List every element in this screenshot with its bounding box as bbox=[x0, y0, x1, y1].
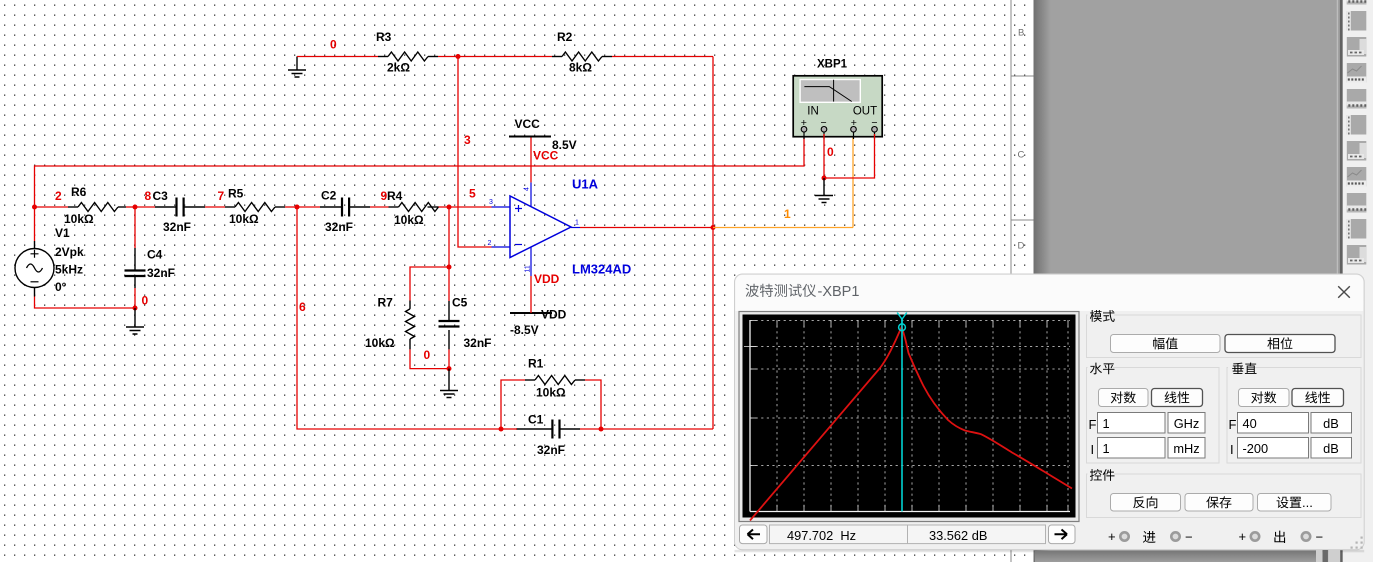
svg-text:32nF: 32nF bbox=[537, 443, 565, 457]
svg-text:-8.5V: -8.5V bbox=[510, 323, 539, 337]
bode plot edge ticks bbox=[744, 321, 1068, 512]
svg-text:V1: V1 bbox=[55, 226, 70, 240]
svg-text:OUT: OUT bbox=[853, 106, 877, 118]
unit GHz bbox=[1168, 413, 1205, 434]
svg-text:10kΩ: 10kΩ bbox=[365, 336, 395, 350]
XBP1 screen curve bbox=[804, 80, 851, 102]
op-amp pin stub + (pin 3) bbox=[492, 206, 511, 208]
button 反向 bbox=[1111, 494, 1181, 512]
bode analyzer dialog window bbox=[735, 274, 1365, 550]
ground bbox=[815, 196, 833, 203]
wire C4 to ground node bbox=[134, 288, 136, 308]
wire net1 vertical feedback bbox=[712, 57, 714, 430]
junction output/feedback bbox=[711, 225, 716, 230]
unit dB (F) bbox=[1311, 413, 1352, 434]
ground bbox=[440, 391, 458, 398]
resistor R4 leads bbox=[389, 206, 439, 208]
op-amp power stub pin 4 bbox=[530, 182, 532, 206]
group label 控件 bbox=[1090, 469, 1102, 481]
svg-text:2: 2 bbox=[488, 240, 492, 247]
capacitor C1 leads bbox=[516, 428, 580, 430]
wire VCC to pin4 bbox=[530, 138, 532, 183]
groupbox controls bbox=[1087, 474, 1362, 518]
svg-text:5kHz: 5kHz bbox=[55, 263, 83, 277]
ground (below R7/C5) bbox=[448, 369, 450, 391]
svg-text:IN: IN bbox=[807, 106, 819, 118]
svg-text:32nF: 32nF bbox=[325, 220, 353, 234]
svg-text:VCC: VCC bbox=[515, 117, 541, 131]
svg-text:C2: C2 bbox=[321, 189, 337, 203]
button 线性 (horizontal) bbox=[1152, 389, 1203, 407]
input F vertical bbox=[1238, 413, 1309, 434]
wire net1 orange horizontal bbox=[713, 227, 853, 229]
wire R4 to node 5 bbox=[439, 206, 450, 208]
wire net 3 to inverting input bbox=[458, 57, 492, 248]
svg-text:R3: R3 bbox=[376, 30, 392, 44]
svg-text:2Vpk: 2Vpk bbox=[55, 245, 84, 259]
readout right button bbox=[1049, 525, 1076, 544]
svg-text:3: 3 bbox=[464, 133, 471, 147]
groupbox vertical bbox=[1227, 368, 1361, 464]
svg-text:+: + bbox=[1239, 529, 1247, 544]
svg-text:VDD: VDD bbox=[534, 272, 560, 286]
svg-text:1: 1 bbox=[1103, 416, 1110, 431]
wire node8 down to C4 bbox=[134, 207, 136, 248]
dialog title 波特测试仪-XBP1 bbox=[746, 284, 759, 297]
svg-text:R4: R4 bbox=[387, 189, 403, 203]
svg-text:0: 0 bbox=[142, 294, 149, 308]
ground (below C4) bbox=[134, 308, 136, 327]
button 幅值 bbox=[1111, 335, 1221, 353]
wire pin11 to VDD bbox=[530, 276, 532, 313]
capacitor C2 bbox=[342, 198, 349, 217]
svg-text:C1: C1 bbox=[528, 413, 544, 427]
toolbar instrument icon 4 bbox=[1347, 63, 1367, 83]
svg-text:R6: R6 bbox=[71, 185, 87, 199]
resistor R6 bbox=[78, 203, 118, 212]
junction node 0 at C4/V1- bbox=[133, 306, 138, 311]
wire net1 top bbox=[612, 56, 713, 58]
sheet row divider B/C bbox=[1011, 75, 1034, 77]
svg-text:VCC: VCC bbox=[533, 149, 559, 163]
junction node 6 bbox=[295, 205, 300, 210]
bode plot grid bbox=[750, 320, 1070, 512]
wire up to R1 bbox=[501, 380, 525, 429]
toolbar instrument icon 9 bbox=[1347, 193, 1367, 213]
wire R6 to node 8 bbox=[126, 206, 135, 208]
resistor R5 leads bbox=[225, 206, 285, 208]
wire node6 to C1 bbox=[501, 428, 517, 430]
capacitor C2 leads bbox=[320, 206, 370, 208]
toolbar instrument icon 6 bbox=[1347, 115, 1367, 135]
svg-text:0: 0 bbox=[827, 145, 834, 159]
capacitor C3 bbox=[177, 198, 184, 217]
svg-text:...: ... bbox=[1302, 495, 1313, 510]
capacitor C4 bbox=[125, 271, 146, 277]
input I horizontal bbox=[1098, 438, 1166, 459]
unit dB (I) bbox=[1311, 438, 1352, 459]
resistor R5 bbox=[235, 203, 275, 212]
wire net1? no net3 between R3,R2 bbox=[438, 56, 552, 58]
op-amp pin stub - (pin 2) bbox=[492, 246, 511, 248]
capacitor C1 bbox=[552, 420, 559, 439]
svg-text:10kΩ: 10kΩ bbox=[536, 386, 566, 400]
resistor R7 leads bbox=[409, 301, 411, 350]
svg-text:40: 40 bbox=[1243, 416, 1257, 431]
svg-text:10kΩ: 10kΩ bbox=[64, 212, 94, 226]
ground (top left, net 0) bbox=[296, 57, 298, 71]
groupbox horizontal bbox=[1087, 368, 1220, 464]
wire net1 orange vertical to OUT+ bbox=[852, 134, 854, 228]
svg-text:1: 1 bbox=[784, 207, 791, 221]
input I vertical bbox=[1238, 438, 1309, 459]
toolbar instrument icon 1 bbox=[1347, 0, 1367, 5]
junction node 3 tap bbox=[456, 54, 461, 59]
wire net0 to R3 bbox=[297, 56, 378, 58]
bode response curve bbox=[750, 327, 1072, 520]
junction node 5 bbox=[447, 205, 452, 210]
junction IN-/OUT- ground bbox=[822, 176, 827, 181]
svg-text:5: 5 bbox=[469, 187, 476, 201]
dialog shadow below bbox=[735, 550, 1365, 553]
XBP1 terminal signs bbox=[801, 117, 878, 129]
svg-text:LM324AD: LM324AD bbox=[572, 262, 631, 277]
svg-text:D: D bbox=[1018, 241, 1025, 252]
ground bbox=[288, 70, 306, 77]
resistor R4 bbox=[399, 203, 439, 212]
bode cursor handle bbox=[897, 313, 907, 331]
wire op-amp output to feedback bbox=[580, 227, 713, 229]
wire V1- to ground node 0 bbox=[35, 297, 136, 309]
workspace background bbox=[1034, 0, 1373, 562]
op-amp output stub (pin 1) bbox=[571, 227, 580, 229]
svg-text:0: 0 bbox=[424, 348, 431, 362]
workspace shadow below dialog bbox=[1035, 551, 1316, 562]
toolbar instrument icon 8 bbox=[1347, 167, 1367, 187]
button 对数 (vertical) bbox=[1239, 389, 1290, 407]
schematic sheet background bbox=[0, 0, 1034, 562]
svg-text:-200: -200 bbox=[1243, 441, 1269, 456]
button 线性 (vertical) bbox=[1292, 389, 1344, 407]
svg-text:10kΩ: 10kΩ bbox=[394, 213, 424, 227]
svg-text:I: I bbox=[1230, 442, 1234, 457]
toolbar instrument icon 10 bbox=[1347, 219, 1367, 239]
button 相位 bbox=[1225, 335, 1335, 353]
svg-text:2: 2 bbox=[55, 189, 62, 203]
group label 垂直 bbox=[1232, 363, 1243, 374]
capacitor C4 leads bbox=[134, 248, 136, 288]
groupbox mode bbox=[1087, 315, 1362, 358]
svg-text:R5: R5 bbox=[228, 187, 244, 201]
VCC power symbol bbox=[509, 136, 551, 138]
wire to R7 top bbox=[410, 267, 449, 301]
svg-text:F: F bbox=[1229, 417, 1237, 432]
wire net1 bottom bbox=[601, 428, 713, 430]
source V1 symbol bbox=[15, 241, 54, 297]
svg-text:I: I bbox=[1091, 442, 1095, 457]
wire C5 to node 0 bbox=[448, 349, 450, 368]
bode cursor line bbox=[901, 319, 903, 512]
toolbar instrument icon 5 bbox=[1347, 89, 1367, 109]
junction node 2 at V1/R6 bbox=[32, 205, 37, 210]
toolbar instrument icon 7 bbox=[1347, 141, 1367, 161]
svg-text:mHz: mHz bbox=[1173, 441, 1199, 456]
capacitor C5 bbox=[439, 321, 460, 327]
instruments toolbar strip bbox=[1343, 0, 1373, 562]
svg-text:3: 3 bbox=[489, 199, 493, 206]
resistor R1 leads bbox=[525, 379, 585, 381]
svg-text:GHz: GHz bbox=[1174, 416, 1200, 431]
junction R1/C1 left bbox=[499, 427, 504, 432]
svg-text:C5: C5 bbox=[452, 296, 468, 310]
svg-text:7: 7 bbox=[218, 189, 225, 203]
wire node5 down bbox=[448, 207, 450, 267]
toolbar instrument icon 2 bbox=[1347, 11, 1367, 31]
LED in - bbox=[1171, 532, 1179, 540]
resistor R6 leads bbox=[68, 206, 126, 208]
label 出 bbox=[1274, 531, 1285, 543]
svg-text:0°: 0° bbox=[55, 280, 67, 294]
VDD power symbol bbox=[510, 312, 552, 314]
wire C3 to R5 bbox=[205, 206, 225, 208]
op-amp U1A triangle bbox=[510, 196, 571, 258]
svg-text:33.562 dB: 33.562 dB bbox=[929, 528, 987, 543]
ground (below XBP1) bbox=[823, 178, 825, 196]
resistor R3 bbox=[388, 52, 428, 61]
input F horizontal bbox=[1098, 413, 1166, 434]
wire C2 to R4 bbox=[370, 206, 389, 208]
svg-text:VDD: VDD bbox=[541, 308, 567, 322]
svg-text:1: 1 bbox=[1103, 441, 1110, 456]
svg-text:+: + bbox=[1108, 529, 1116, 544]
wire OUT- to junction bbox=[824, 134, 875, 178]
svg-text:10kΩ: 10kΩ bbox=[229, 212, 259, 226]
button 保存 bbox=[1185, 494, 1253, 512]
svg-text:U1A: U1A bbox=[572, 177, 599, 192]
op-amp + input marker bbox=[515, 205, 522, 212]
wire node2 to R6 bbox=[35, 206, 69, 208]
label 进 bbox=[1143, 531, 1156, 543]
LED out + bbox=[1251, 532, 1259, 540]
dialog close button bbox=[1338, 286, 1350, 298]
resistor R7 bbox=[406, 309, 415, 339]
bode plot axes bbox=[750, 320, 1070, 512]
LED out - bbox=[1302, 532, 1310, 540]
bode plot black area bbox=[743, 315, 1076, 518]
wire net 6 left/bottom bbox=[297, 207, 501, 429]
resistor R1 bbox=[535, 376, 575, 385]
svg-text:2kΩ: 2kΩ bbox=[387, 61, 410, 75]
wire R7 bottom to node 0 bbox=[410, 349, 449, 368]
resistor R2 bbox=[562, 52, 602, 61]
XBP1 screen bbox=[799, 79, 861, 103]
LED in + bbox=[1120, 532, 1128, 540]
svg-text:R2: R2 bbox=[557, 30, 573, 44]
svg-text:8: 8 bbox=[145, 189, 152, 203]
wire node5 to C5 bbox=[448, 267, 450, 301]
readout field bbox=[770, 525, 1046, 544]
svg-text:−: − bbox=[1185, 530, 1193, 545]
op-amp - input marker bbox=[515, 244, 522, 246]
wire net 2 rail V1 to IN+ bbox=[35, 133, 805, 241]
unit mHz bbox=[1168, 438, 1205, 459]
svg-text:0: 0 bbox=[330, 38, 337, 52]
svg-text:6: 6 bbox=[299, 300, 306, 314]
svg-text:8kΩ: 8kΩ bbox=[569, 61, 592, 75]
svg-text:C4: C4 bbox=[147, 248, 163, 262]
op-amp power stub pin 11 bbox=[530, 247, 532, 276]
sheet border column line bbox=[1010, 0, 1012, 562]
wire R1 right down bbox=[585, 380, 601, 429]
junction node5/R7/C5 bbox=[447, 265, 452, 270]
dialog resize grip bbox=[1351, 537, 1363, 549]
svg-text:−: − bbox=[1316, 530, 1324, 545]
bode plot frame bbox=[739, 312, 1079, 522]
svg-text:C: C bbox=[1018, 150, 1025, 161]
junction node 8 bbox=[133, 205, 138, 210]
svg-text:F: F bbox=[1089, 417, 1097, 432]
junction R1/C1 right bbox=[599, 427, 604, 432]
button 对数 (horizontal) bbox=[1099, 389, 1149, 407]
svg-text:32nF: 32nF bbox=[464, 336, 492, 350]
capacitor C5 leads bbox=[448, 301, 450, 349]
toolbar instrument icon 3 bbox=[1347, 37, 1367, 57]
wire IN- down bbox=[823, 134, 825, 178]
svg-text:11: 11 bbox=[525, 265, 532, 272]
svg-text:R1: R1 bbox=[528, 357, 544, 371]
sheet row divider C/D bbox=[1011, 219, 1034, 221]
capacitor C3 leads bbox=[155, 206, 205, 208]
svg-text:C3: C3 bbox=[153, 189, 169, 203]
group label 水平 bbox=[1090, 363, 1102, 375]
svg-text:4: 4 bbox=[524, 187, 531, 191]
junction node 0 R7/C5 bbox=[447, 366, 452, 371]
svg-text:dB: dB bbox=[1323, 416, 1339, 431]
ground bbox=[126, 327, 144, 334]
svg-text:R7: R7 bbox=[378, 296, 394, 310]
wire node8 to C3 bbox=[135, 206, 155, 208]
XBP1 terminals bbox=[801, 127, 807, 140]
resistor R2 leads bbox=[552, 56, 612, 58]
resistor R3 leads bbox=[378, 56, 438, 58]
wire node5 to + input bbox=[449, 206, 492, 208]
instrument XBP1 body bbox=[793, 76, 882, 137]
svg-text:XBP1: XBP1 bbox=[817, 59, 848, 71]
svg-text:B: B bbox=[1018, 28, 1024, 39]
svg-text:dB: dB bbox=[1323, 441, 1339, 456]
svg-text:32nF: 32nF bbox=[147, 266, 175, 280]
svg-text:497.702 Hz: 497.702 Hz bbox=[787, 528, 856, 543]
wire R5 to node 6 bbox=[285, 206, 297, 208]
wire C1 to right junction bbox=[580, 428, 601, 430]
button 设置... bbox=[1258, 494, 1332, 512]
svg-text:32nF: 32nF bbox=[163, 220, 191, 234]
toolbar instrument icon 11 bbox=[1347, 245, 1367, 265]
svg-text:1: 1 bbox=[575, 220, 579, 227]
readout left button bbox=[740, 525, 768, 544]
svg-text:-XBP1: -XBP1 bbox=[818, 284, 860, 300]
wire node6 to C2 bbox=[297, 206, 320, 208]
group label 模式 bbox=[1090, 310, 1102, 322]
